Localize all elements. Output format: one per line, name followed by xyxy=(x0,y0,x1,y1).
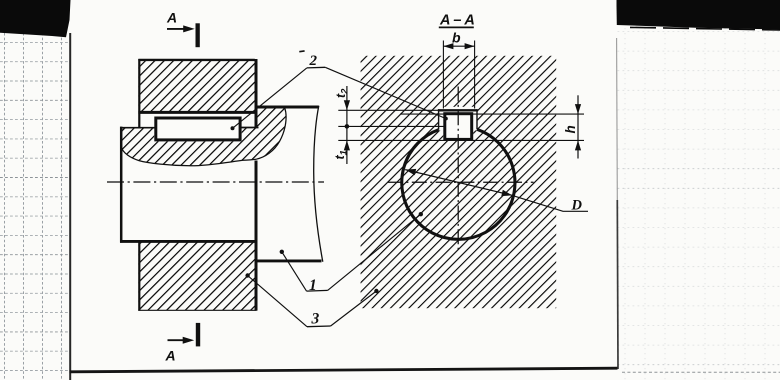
D leader line xyxy=(512,195,588,211)
hub keyway slot cutout (white) xyxy=(439,107,477,131)
part callout 1 (shaft) xyxy=(280,212,423,294)
part callout 3 (hub) xyxy=(245,273,378,327)
graph paper left strip xyxy=(0,0,70,380)
graph paper right region xyxy=(618,28,780,380)
t2/t1 extension lines xyxy=(338,109,438,111)
svg-text:A: A xyxy=(166,10,177,26)
section arrow A (top) xyxy=(166,10,200,48)
key cross-section (white rect) xyxy=(445,114,472,140)
scan black bar top-right xyxy=(617,0,780,30)
scan black bar top-left xyxy=(0,0,71,37)
t dimension vertical line xyxy=(346,86,348,164)
hub keyway slot sides xyxy=(438,109,440,130)
shaft left end face xyxy=(120,127,123,243)
shaft shoulder (larger diameter) top edge xyxy=(256,106,319,109)
shaft top surface left of key xyxy=(120,127,155,129)
svg-text:b: b xyxy=(452,29,461,45)
horizontal centerline (section) xyxy=(388,181,534,183)
shaft cross-section circle xyxy=(402,129,515,239)
shaft top surface right of key xyxy=(242,127,259,129)
svg-text:h: h xyxy=(563,125,578,133)
key K (longitudinal, white) xyxy=(156,118,240,140)
shaft centerline (left view) xyxy=(107,181,324,183)
dimension b line with arrows xyxy=(443,45,474,47)
broken-out section of shaft around key (hatched, wavy boundary) xyxy=(121,108,286,166)
diameter D dimension line xyxy=(405,170,512,196)
shaft keyway cutout (white) xyxy=(443,112,473,141)
wavy break boundary line xyxy=(121,108,286,166)
label t1 xyxy=(333,150,350,159)
section arrow A (bottom) xyxy=(165,323,201,363)
key top extension line for h xyxy=(400,113,584,115)
hub lower section (hatched) xyxy=(138,241,256,310)
hub upper section (hatched) xyxy=(138,59,256,113)
svg-text:A: A xyxy=(165,347,176,363)
svg-text:2: 2 xyxy=(309,53,318,69)
page left edge xyxy=(69,33,71,380)
page bottom edge xyxy=(70,368,618,372)
label h xyxy=(563,125,578,133)
hub keyway slot bottom line xyxy=(138,111,257,114)
shaft break wavy line xyxy=(314,106,323,262)
dimension b extension lines xyxy=(442,41,444,109)
hub cross-section square (hatched) xyxy=(361,56,557,308)
svg-text:D: D xyxy=(571,198,583,214)
part callout 2 (key) xyxy=(231,51,448,130)
hub right face line xyxy=(255,59,258,128)
shaft shoulder bottom edge xyxy=(256,259,322,262)
hub keyway slot bottom xyxy=(438,109,478,111)
svg-text:A – A: A – A xyxy=(439,13,475,29)
vertical centerline (section) xyxy=(457,87,459,251)
shaft bottom line xyxy=(120,240,257,243)
svg-text:3: 3 xyxy=(311,310,320,327)
label t2 xyxy=(334,88,351,98)
page right edge xyxy=(616,38,619,200)
h dimension vertical line xyxy=(577,95,579,158)
